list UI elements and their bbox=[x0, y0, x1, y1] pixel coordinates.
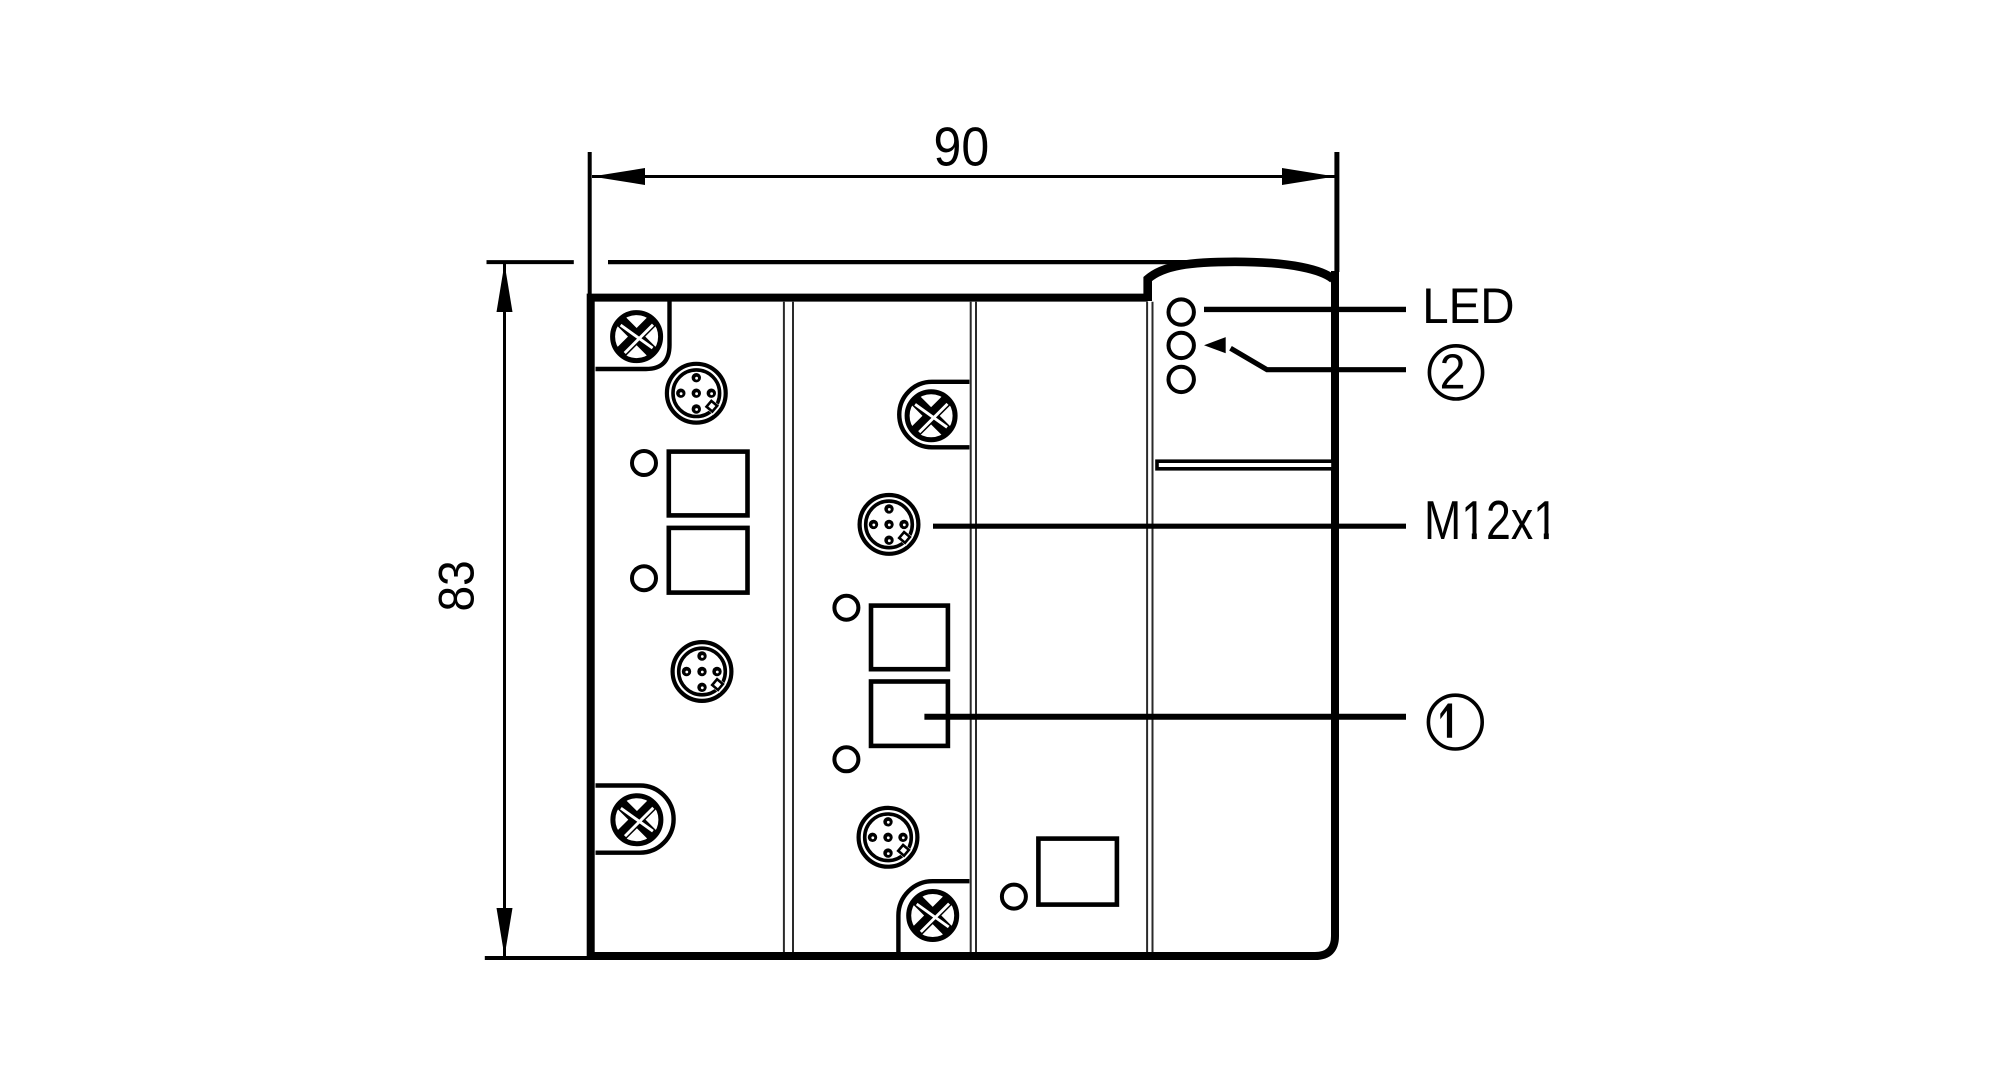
svg-text:83: 83 bbox=[430, 560, 485, 611]
svg-text:2: 2 bbox=[1440, 346, 1466, 400]
svg-text:LED: LED bbox=[1422, 279, 1514, 334]
svg-text:M12x1: M12x1 bbox=[1424, 489, 1558, 550]
svg-text:90: 90 bbox=[934, 116, 990, 178]
